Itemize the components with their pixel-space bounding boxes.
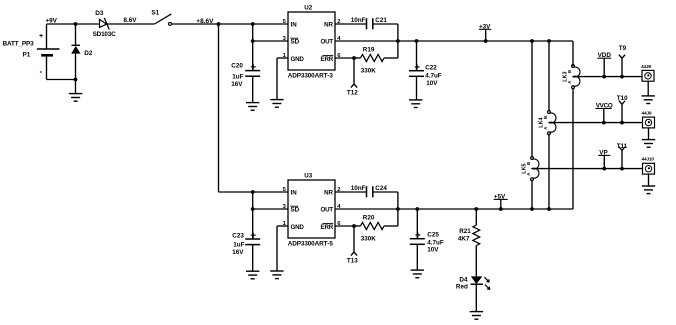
svg-text:Red: Red: [456, 283, 468, 290]
svg-text:C25: C25: [427, 232, 439, 239]
resistor R20: [354, 222, 398, 229]
wire D3 to switch: [107, 23, 155, 25]
wire VVCO rail: [549, 122, 643, 124]
test point T11: [619, 147, 625, 169]
wire LK4 column upper: [548, 41, 550, 112]
svg-text:SD103C: SD103C: [93, 31, 117, 38]
wire +5V tick: [500, 199, 502, 209]
capacitor C22: [409, 64, 424, 76]
wire C21 to OUT feedback: [373, 23, 398, 25]
wire D4 to ground: [475, 284, 477, 311]
junction ERR/T13: [352, 224, 356, 228]
power label +5V: [494, 193, 508, 200]
svg-text:10nF: 10nF: [351, 185, 366, 192]
svg-text:T12: T12: [347, 89, 358, 96]
wire U2 ERR stub: [335, 57, 354, 59]
diode D3 (SD103C): [100, 18, 110, 30]
svg-text:330K: 330K: [361, 236, 377, 243]
test point T9: [619, 55, 625, 77]
resistor R21: [473, 209, 480, 276]
wire J10 to ground: [648, 174, 650, 186]
wire VP label tick: [603, 155, 605, 168]
junction +8.6V feed to SD/C20: [251, 22, 255, 26]
capacitor C20: [245, 64, 260, 76]
ground (J9): [642, 140, 655, 148]
wire +8.6V down to U3 input: [218, 24, 220, 192]
svg-text:A: A: [567, 81, 572, 84]
op-regulator U3 ADP3300ART-5: [283, 172, 342, 247]
junction C21/OUT: [396, 39, 400, 43]
svg-text:SD: SD: [291, 207, 300, 214]
connector J8: [641, 64, 654, 81]
wire SD drop U2: [252, 24, 254, 41]
svg-text:16V: 16V: [231, 81, 243, 88]
switch S1: [155, 14, 172, 26]
wire VDD rail: [573, 76, 642, 78]
junction OUT/C22: [415, 39, 419, 43]
ground (D4): [470, 312, 483, 320]
wire battery top to D2 node: [47, 23, 99, 25]
junction T9: [620, 75, 624, 79]
svg-text:44J10: 44J10: [642, 157, 655, 163]
resistor R19: [354, 54, 398, 61]
svg-text:+8.6V: +8.6V: [196, 18, 214, 25]
svg-text:P1: P1: [23, 52, 31, 59]
link LK3: [563, 65, 580, 89]
svg-text:T11: T11: [617, 143, 628, 150]
svg-text:C20: C20: [231, 63, 243, 70]
wire +3V down to LK3: [572, 41, 574, 66]
junction C24/OUT: [396, 207, 400, 211]
junction ERR/T12: [352, 56, 356, 60]
svg-text:16V: 16V: [232, 249, 244, 256]
wire U2 NR to C21: [335, 23, 367, 25]
wire C24 to OUT feedback: [373, 191, 398, 193]
wire OUT to C22: [416, 41, 418, 71]
svg-text:C24: C24: [375, 185, 387, 192]
junction +3V/LK4 column: [547, 39, 551, 43]
op-regulator U2 ADP3300ART-3: [283, 4, 342, 79]
junction +5V label: [499, 207, 503, 211]
svg-text:4.7uF: 4.7uF: [425, 72, 442, 79]
svg-text:44J8: 44J8: [641, 64, 651, 70]
battery P1: [37, 24, 60, 80]
wire J8 to ground: [647, 81, 649, 96]
wire SD drop U3: [252, 192, 254, 209]
svg-text:U3: U3: [304, 172, 312, 179]
svg-text:GND: GND: [291, 224, 305, 231]
svg-text:A: A: [543, 127, 548, 130]
ground (U2 GND): [270, 100, 283, 108]
ground (C22): [409, 100, 422, 108]
svg-text:1uF: 1uF: [233, 242, 244, 249]
svg-text:B: B: [567, 70, 572, 73]
capacitor C22 labels: [425, 64, 442, 86]
svg-text:B: B: [543, 116, 548, 119]
LED D4: [471, 276, 491, 290]
wire down to C20: [252, 41, 254, 71]
junction +5V/R21: [474, 207, 478, 211]
wire VDD label tick: [603, 58, 605, 76]
svg-text:R19: R19: [363, 46, 375, 53]
wire C20 to ground: [252, 76, 254, 102]
svg-text:R21: R21: [459, 228, 471, 235]
svg-text:D4: D4: [459, 276, 468, 283]
wire +3V tick: [485, 29, 487, 41]
svg-text:44J9: 44J9: [642, 111, 652, 117]
svg-text:330K: 330K: [361, 68, 377, 75]
svg-text:SD: SD: [291, 39, 300, 46]
junction battery bottom / ground: [74, 78, 78, 82]
wire LK5 column upper: [531, 41, 533, 158]
junction +8.6V feed to U3: [217, 22, 221, 26]
svg-text:IN: IN: [291, 22, 298, 29]
svg-text:ERR: ERR: [321, 224, 334, 231]
junction T11: [620, 167, 624, 171]
capacitor C23: [245, 233, 260, 245]
junction VP label: [602, 167, 606, 171]
svg-text:-: -: [40, 67, 43, 76]
wire to battery ground: [75, 80, 77, 94]
wire OUT to C25: [416, 209, 418, 239]
svg-text:ADP3300ART‑3: ADP3300ART‑3: [288, 73, 334, 80]
svg-text:ERR: ERR: [321, 56, 334, 63]
link LK4: [539, 111, 556, 135]
wire LK3 to +5V rail: [572, 88, 574, 209]
svg-text:NR: NR: [324, 190, 333, 197]
svg-text:+9V: +9V: [45, 17, 57, 24]
wire battery bottom: [47, 79, 76, 81]
svg-text:IN: IN: [291, 190, 298, 197]
wire C22 to ground: [416, 76, 418, 99]
junction VDD label: [602, 75, 606, 79]
power label VVCO: [595, 103, 612, 110]
junction U3 IN / SD-C23: [251, 190, 255, 194]
wire down to C23: [252, 209, 254, 239]
svg-text:10V: 10V: [426, 80, 438, 87]
power label VDD: [597, 52, 611, 59]
svg-text:+: +: [39, 33, 43, 40]
svg-text:OUT: OUT: [321, 207, 334, 214]
ground (C20): [246, 103, 259, 111]
svg-text:C22: C22: [425, 64, 437, 71]
svg-text:NR: NR: [324, 22, 333, 29]
ground (battery): [69, 94, 82, 102]
ground (U3 GND): [270, 271, 283, 279]
svg-text:C23: C23: [232, 232, 244, 239]
capacitor C20 labels: [231, 63, 243, 89]
junction +3V/LK5 column: [530, 39, 534, 43]
svg-text:U2: U2: [304, 4, 312, 11]
wire C25 to ground: [416, 244, 418, 270]
svg-text:ADP3300ART‑5: ADP3300ART‑5: [288, 241, 334, 248]
wire J9 to ground: [648, 128, 650, 139]
power label +3V: [479, 23, 491, 30]
svg-text:T13: T13: [347, 257, 358, 264]
wire U2 OUT rail (+3V): [335, 40, 573, 42]
test point T10: [619, 101, 625, 123]
diode D2: [71, 24, 80, 80]
junction VVCO label: [602, 121, 606, 125]
wire LK5 to +5V rail: [531, 180, 533, 209]
capacitor C21: [367, 18, 373, 29]
ground (C23): [246, 271, 259, 279]
svg-text:T9: T9: [619, 45, 627, 52]
capacitor C25 labels: [427, 232, 444, 254]
wire U3 GND pin to ground: [277, 225, 288, 227]
svg-text:B: B: [526, 162, 531, 165]
test point T12: [351, 58, 357, 88]
capacitor C25: [410, 232, 425, 244]
junction +5V/LK4 column: [547, 207, 551, 211]
wire SD to U2 pin 3: [253, 40, 288, 42]
ground (J10): [642, 186, 655, 194]
junction T10: [620, 121, 624, 125]
svg-text:R20: R20: [363, 214, 375, 221]
power label VP: [598, 149, 610, 156]
connector J10: [642, 157, 655, 174]
svg-text:D3: D3: [95, 10, 104, 17]
svg-text:8.6V: 8.6V: [123, 17, 137, 24]
wire VVCO label tick: [603, 109, 605, 123]
svg-text:GND: GND: [291, 56, 305, 63]
wire SD to U3 pin 3: [253, 208, 288, 210]
wire C23 to ground: [252, 245, 254, 271]
svg-text:10nF: 10nF: [351, 17, 366, 24]
svg-text:D2: D2: [84, 50, 93, 57]
svg-text:BATT_PP3: BATT_PP3: [3, 41, 35, 48]
svg-text:C21: C21: [375, 17, 387, 24]
capacitor C24: [367, 186, 373, 197]
wire switch to U2 IN (+8.6V net): [172, 23, 289, 25]
svg-text:S1: S1: [151, 10, 159, 17]
connector J9: [642, 111, 655, 128]
wire LK4 to +5V rail: [548, 134, 550, 209]
wire U3 NR to C24: [335, 191, 367, 193]
junction +3V label: [484, 39, 488, 43]
wire VP rail: [532, 168, 643, 170]
junction OUT/C25: [415, 207, 419, 211]
junction SD/C20 node: [251, 39, 255, 43]
svg-text:10V: 10V: [427, 247, 439, 254]
svg-text:A: A: [526, 173, 531, 176]
junction +5V/LK5 column: [530, 207, 534, 211]
wire U3 ERR stub: [335, 225, 354, 227]
junction SD/C23 node: [251, 207, 255, 211]
svg-text:1uF: 1uF: [232, 73, 243, 80]
ground (C25): [411, 270, 424, 278]
capacitor C23 labels: [232, 232, 244, 256]
wire U3 OUT rail (+5V): [335, 208, 573, 210]
test point T13: [351, 226, 357, 256]
wire U2 GND pin to ground: [277, 57, 288, 59]
ground (J8): [642, 96, 655, 104]
svg-text:4.7uF: 4.7uF: [427, 240, 444, 247]
node junction +9V/D2: [74, 22, 78, 26]
svg-text:OUT: OUT: [321, 39, 334, 46]
link LK5: [522, 157, 539, 181]
svg-text:4K7: 4K7: [458, 236, 470, 243]
